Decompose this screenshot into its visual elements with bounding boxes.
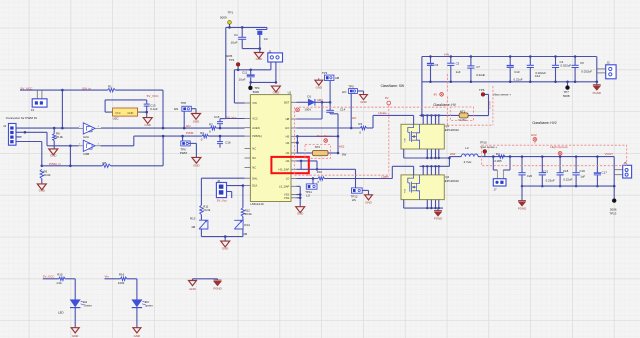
svg-text:DLK: DLK: [252, 184, 257, 188]
svg-text:20.0k: 20.0k: [203, 208, 211, 212]
svg-text:Vin: Vin: [105, 274, 110, 278]
svg-text:EPC2001C: EPC2001C: [445, 128, 459, 132]
svg-text:R4: R4: [200, 131, 204, 135]
svg-text:C6: C6: [435, 63, 439, 67]
svg-text:GND: GND: [256, 57, 262, 61]
svg-text:EN_in: EN_in: [83, 86, 92, 90]
svg-text:DHL: DHL: [252, 176, 258, 180]
svg-text:J7: J7: [494, 188, 497, 192]
svg-text:1.0k: 1.0k: [56, 281, 62, 285]
svg-text:PWM: PWM: [186, 131, 194, 135]
svg-text:TP6: TP6: [479, 88, 485, 92]
svg-text:R3: R3: [358, 122, 362, 126]
svg-text:R1: R1: [108, 84, 112, 88]
svg-text:VIN: VIN: [444, 52, 449, 56]
svg-text:R15: R15: [57, 272, 63, 276]
svg-text:C1: C1: [234, 33, 238, 37]
svg-text:AUEN: AUEN: [252, 126, 260, 130]
svg-text:R14: R14: [244, 223, 250, 227]
svg-text:SUB: SUB: [405, 188, 407, 193]
svg-text:GND: GND: [365, 200, 371, 204]
svg-text:HO: HO: [342, 90, 347, 94]
svg-text:C2: C2: [264, 37, 268, 41]
svg-text:1uF: 1uF: [456, 70, 461, 74]
svg-text:D1: D1: [307, 95, 311, 99]
svg-text:100k: 100k: [118, 281, 125, 285]
svg-text:HO: HO: [352, 116, 357, 120]
svg-text:C3: C3: [456, 62, 460, 66]
svg-text:GND: GND: [189, 287, 195, 291]
svg-text:C20: C20: [527, 174, 533, 178]
svg-text:HO: HO: [285, 126, 289, 130]
svg-text:0.022uF: 0.022uF: [561, 64, 572, 68]
svg-text:0.1uF: 0.1uF: [150, 107, 158, 111]
svg-text:U1: U1: [288, 91, 292, 95]
svg-text:EN: EN: [186, 124, 190, 128]
svg-text:GND: GND: [72, 334, 78, 338]
svg-text:NC: NC: [252, 156, 256, 160]
svg-text:LO: LO: [286, 177, 290, 181]
svg-text:PGND: PGND: [593, 91, 601, 95]
svg-text:GND: GND: [50, 154, 56, 158]
svg-text:U2C: U2C: [113, 117, 120, 121]
svg-text:LMG1210: LMG1210: [250, 202, 264, 206]
svg-text:C14: C14: [340, 108, 346, 112]
svg-text:TP13: TP13: [609, 212, 616, 216]
svg-text:GND: GND: [360, 100, 366, 104]
svg-text:HB: HB: [335, 76, 339, 80]
svg-text:ClassName: HV: ClassName: HV: [433, 103, 457, 107]
svg-text:PWM(L): PWM(L): [252, 134, 262, 138]
svg-text:J2: J2: [607, 61, 610, 65]
svg-text:SUB: SUB: [405, 138, 407, 143]
svg-text:HS: HS: [286, 141, 290, 145]
svg-text:TP3: TP3: [322, 71, 328, 75]
svg-text:X_VIN: X_VIN: [488, 101, 492, 109]
svg-text:5V_VCC: 5V_VCC: [43, 274, 56, 278]
svg-text:0.005: 0.005: [494, 159, 502, 163]
svg-text:HS: HS: [286, 134, 290, 138]
svg-text:4.7uH: 4.7uH: [464, 160, 472, 164]
svg-text:R2: R2: [209, 123, 213, 127]
svg-text:0.22uF: 0.22uF: [476, 73, 485, 77]
svg-text:R16: R16: [119, 272, 125, 276]
svg-text:Vbus sense +: Vbus sense +: [493, 93, 512, 97]
svg-text:5V_Vcc: 5V_Vcc: [217, 198, 228, 202]
svg-text:NetTie: NetTie: [458, 118, 467, 122]
svg-text:LS_DAP: LS_DAP: [279, 184, 290, 188]
svg-text:20.0k: 20.0k: [43, 173, 51, 177]
svg-text:BST: BST: [284, 100, 290, 104]
svg-text:GND: GND: [316, 86, 322, 90]
svg-text:J4: J4: [3, 124, 6, 128]
svg-text:EN: EN: [174, 107, 178, 111]
svg-text:GND: GND: [144, 123, 150, 127]
svg-text:TP1: TP1: [228, 11, 234, 15]
svg-text:C11: C11: [242, 70, 248, 74]
svg-text:C10: C10: [514, 70, 520, 74]
svg-text:R13: R13: [190, 216, 196, 220]
svg-text:0.22uF: 0.22uF: [546, 178, 555, 182]
svg-text:HB: HB: [286, 117, 290, 121]
svg-text:8V: 8V: [385, 96, 389, 100]
svg-text:High Current: High Current: [550, 145, 567, 149]
svg-text:PGND: PGND: [518, 207, 526, 211]
svg-text:C5: C5: [580, 61, 584, 65]
svg-text:5V_Vcc: 5V_Vcc: [226, 116, 237, 120]
svg-text:HS: HS: [286, 151, 290, 155]
svg-text:U2A: U2A: [83, 135, 89, 139]
svg-text:VCC: VCC: [115, 111, 121, 115]
svg-text:R10: R10: [317, 170, 323, 174]
svg-text:GND: GND: [39, 189, 45, 193]
svg-text:Green: Green: [84, 303, 92, 307]
svg-text:NC: NC: [252, 166, 256, 170]
svg-text:VIN: VIN: [252, 101, 257, 105]
svg-text:GND: GND: [134, 334, 140, 338]
svg-text:GND: GND: [222, 246, 228, 250]
svg-text:C21: C21: [543, 170, 549, 174]
svg-text:0.22uF: 0.22uF: [563, 178, 572, 182]
svg-text:ClassName: HV2: ClassName: HV2: [532, 121, 557, 125]
svg-text:R7: R7: [496, 152, 500, 156]
svg-text:TP8: TP8: [181, 101, 187, 105]
svg-text:20.0k: 20.0k: [56, 135, 64, 139]
svg-text:C12: C12: [535, 74, 541, 78]
svg-text:VOUT: VOUT: [605, 152, 614, 156]
svg-text:PGND: PGND: [434, 217, 442, 221]
svg-text:5006: 5006: [253, 90, 260, 94]
svg-text:NC: NC: [252, 147, 256, 151]
svg-text:C7: C7: [476, 65, 480, 69]
svg-text:HS2: HS2: [339, 144, 345, 148]
svg-text:J3: J3: [31, 108, 35, 112]
svg-text:5009: 5009: [220, 16, 227, 20]
svg-text:green: green: [146, 303, 154, 307]
svg-text:C18: C18: [563, 169, 569, 173]
svg-text:L2: L2: [465, 146, 469, 150]
svg-text:HS_DAP: HS_DAP: [279, 167, 290, 171]
svg-text:0.022uF: 0.022uF: [581, 69, 592, 73]
svg-text:GND: GND: [127, 111, 133, 115]
svg-text:5008: 5008: [563, 94, 570, 98]
svg-text:0.22uF: 0.22uF: [514, 78, 523, 82]
svg-text:TP10: TP10: [480, 141, 487, 145]
svg-text:Connector for PWM IN: Connector for PWM IN: [6, 116, 37, 120]
svg-text:PWM: PWM: [180, 151, 188, 155]
svg-text:GND: GND: [297, 212, 303, 216]
svg-text:1uF: 1uF: [580, 174, 585, 178]
svg-text:VSS: VSS: [284, 196, 290, 200]
svg-text:ClassName: SW: ClassName: SW: [381, 84, 404, 88]
svg-text:Vout sense +: Vout sense +: [480, 145, 497, 149]
svg-text:C15: C15: [214, 115, 220, 119]
svg-text:SW: SW: [342, 152, 347, 156]
svg-text:1M: 1M: [243, 232, 248, 236]
svg-text:100V: 100V: [304, 107, 311, 111]
svg-text:R8: R8: [102, 161, 106, 165]
svg-text:HS: HS: [286, 159, 290, 163]
svg-text:C17: C17: [602, 171, 608, 175]
svg-text:GND: GND: [273, 91, 279, 95]
svg-text:PGND: PGND: [213, 286, 221, 290]
svg-text:HS: HS: [352, 198, 356, 202]
svg-text:HGate: HGate: [378, 111, 387, 115]
svg-text:EPC2001C: EPC2001C: [445, 179, 459, 183]
svg-text:5V_VCC: 5V_VCC: [147, 94, 160, 98]
svg-text:HS2: HS2: [450, 152, 456, 156]
svg-text:VCC: VCC: [252, 117, 258, 121]
svg-text:10uF: 10uF: [239, 78, 246, 82]
svg-text:C19: C19: [579, 169, 585, 173]
svg-text:C16: C16: [225, 141, 231, 145]
svg-text:GND: GND: [193, 163, 199, 167]
svg-text:ClassName: ClassName: [317, 134, 332, 138]
svg-text:NT2: NT2: [315, 145, 321, 149]
svg-text:HV2: HV2: [531, 133, 537, 137]
svg-text:1M: 1M: [191, 225, 196, 229]
svg-text:NT1: NT1: [460, 109, 466, 113]
svg-text:U2B: U2B: [83, 152, 89, 156]
svg-text:8V: 8V: [434, 92, 438, 96]
svg-text:GND: GND: [193, 120, 199, 124]
svg-text:10uF: 10uF: [231, 40, 238, 44]
svg-text:20.0k: 20.0k: [245, 212, 253, 216]
svg-text:TP2: TP2: [229, 58, 235, 62]
svg-text:TP5: TP5: [348, 85, 354, 89]
svg-text:LED: LED: [58, 311, 64, 315]
